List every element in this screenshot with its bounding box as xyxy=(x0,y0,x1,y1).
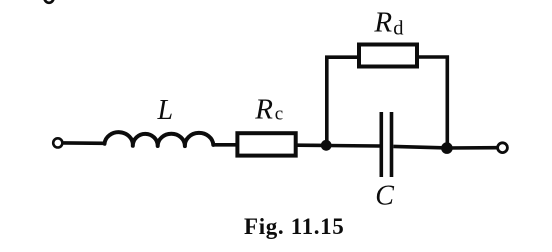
wire T1 to inductor xyxy=(64,141,105,145)
wire node A to capacitor xyxy=(326,144,379,148)
capacitor C plate right xyxy=(390,112,394,177)
svg-text:L: L xyxy=(157,95,174,126)
wire left riser node A to Rd xyxy=(327,57,358,145)
terminal T1 (left open circle) xyxy=(53,138,62,147)
svg-text:R: R xyxy=(373,7,392,39)
node B (junction dot) xyxy=(441,142,453,154)
wire right riser Rd to node B xyxy=(419,57,448,148)
svg-text:Fig. 11.15: Fig. 11.15 xyxy=(244,214,344,239)
node A (junction dot) xyxy=(321,140,332,151)
stray glyph descender (cropped text) xyxy=(44,0,53,3)
wire inductor to Rc xyxy=(213,143,237,147)
wire Rc to node A xyxy=(298,143,327,147)
capacitor C plate left xyxy=(379,112,383,177)
resistor Rd (box) xyxy=(359,45,417,67)
wire node B to terminal T2 xyxy=(447,146,497,150)
wire capacitor to node B xyxy=(393,146,447,148)
svg-text:C: C xyxy=(375,180,394,211)
inductor L (4 humps) xyxy=(105,132,214,146)
svg-text:d: d xyxy=(393,17,403,39)
svg-text:c: c xyxy=(275,104,283,125)
svg-text:R: R xyxy=(254,94,273,126)
resistor Rc (box) xyxy=(237,133,295,155)
terminal T2 (right open circle) xyxy=(498,143,508,153)
